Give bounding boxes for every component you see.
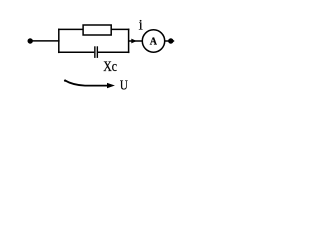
wire: left junction vertical: [58, 29, 60, 53]
resistor: [83, 25, 111, 35]
node: left terminal: [28, 38, 33, 43]
wire: top branch right segment: [111, 28, 129, 30]
wire: output lead to ammeter: [129, 40, 143, 42]
wire: top branch left segment: [58, 28, 84, 30]
voltage arrow U: curved shaft: [65, 80, 108, 85]
svg-text:i: i: [139, 18, 143, 34]
wire: bottom branch left segment: [58, 51, 94, 53]
node: right terminal: [168, 38, 173, 43]
capacitor Xc: right plate: [96, 46, 98, 58]
current direction arrowhead: [131, 39, 137, 44]
svg-text:U: U: [120, 77, 128, 93]
wire: bottom branch right segment: [98, 51, 129, 53]
svg-text:Xc: Xc: [103, 57, 117, 74]
voltage arrow U: arrowhead: [107, 83, 115, 88]
wire: ammeter to right terminal: [165, 40, 175, 42]
wire: left lead: [30, 40, 59, 42]
ammeter A: [142, 30, 164, 52]
svg-text:A: A: [150, 37, 158, 48]
capacitor Xc: left plate: [94, 46, 96, 58]
voltage arrow U: pen blob at start: [64, 79, 66, 81]
wire: right junction vertical: [128, 29, 130, 53]
